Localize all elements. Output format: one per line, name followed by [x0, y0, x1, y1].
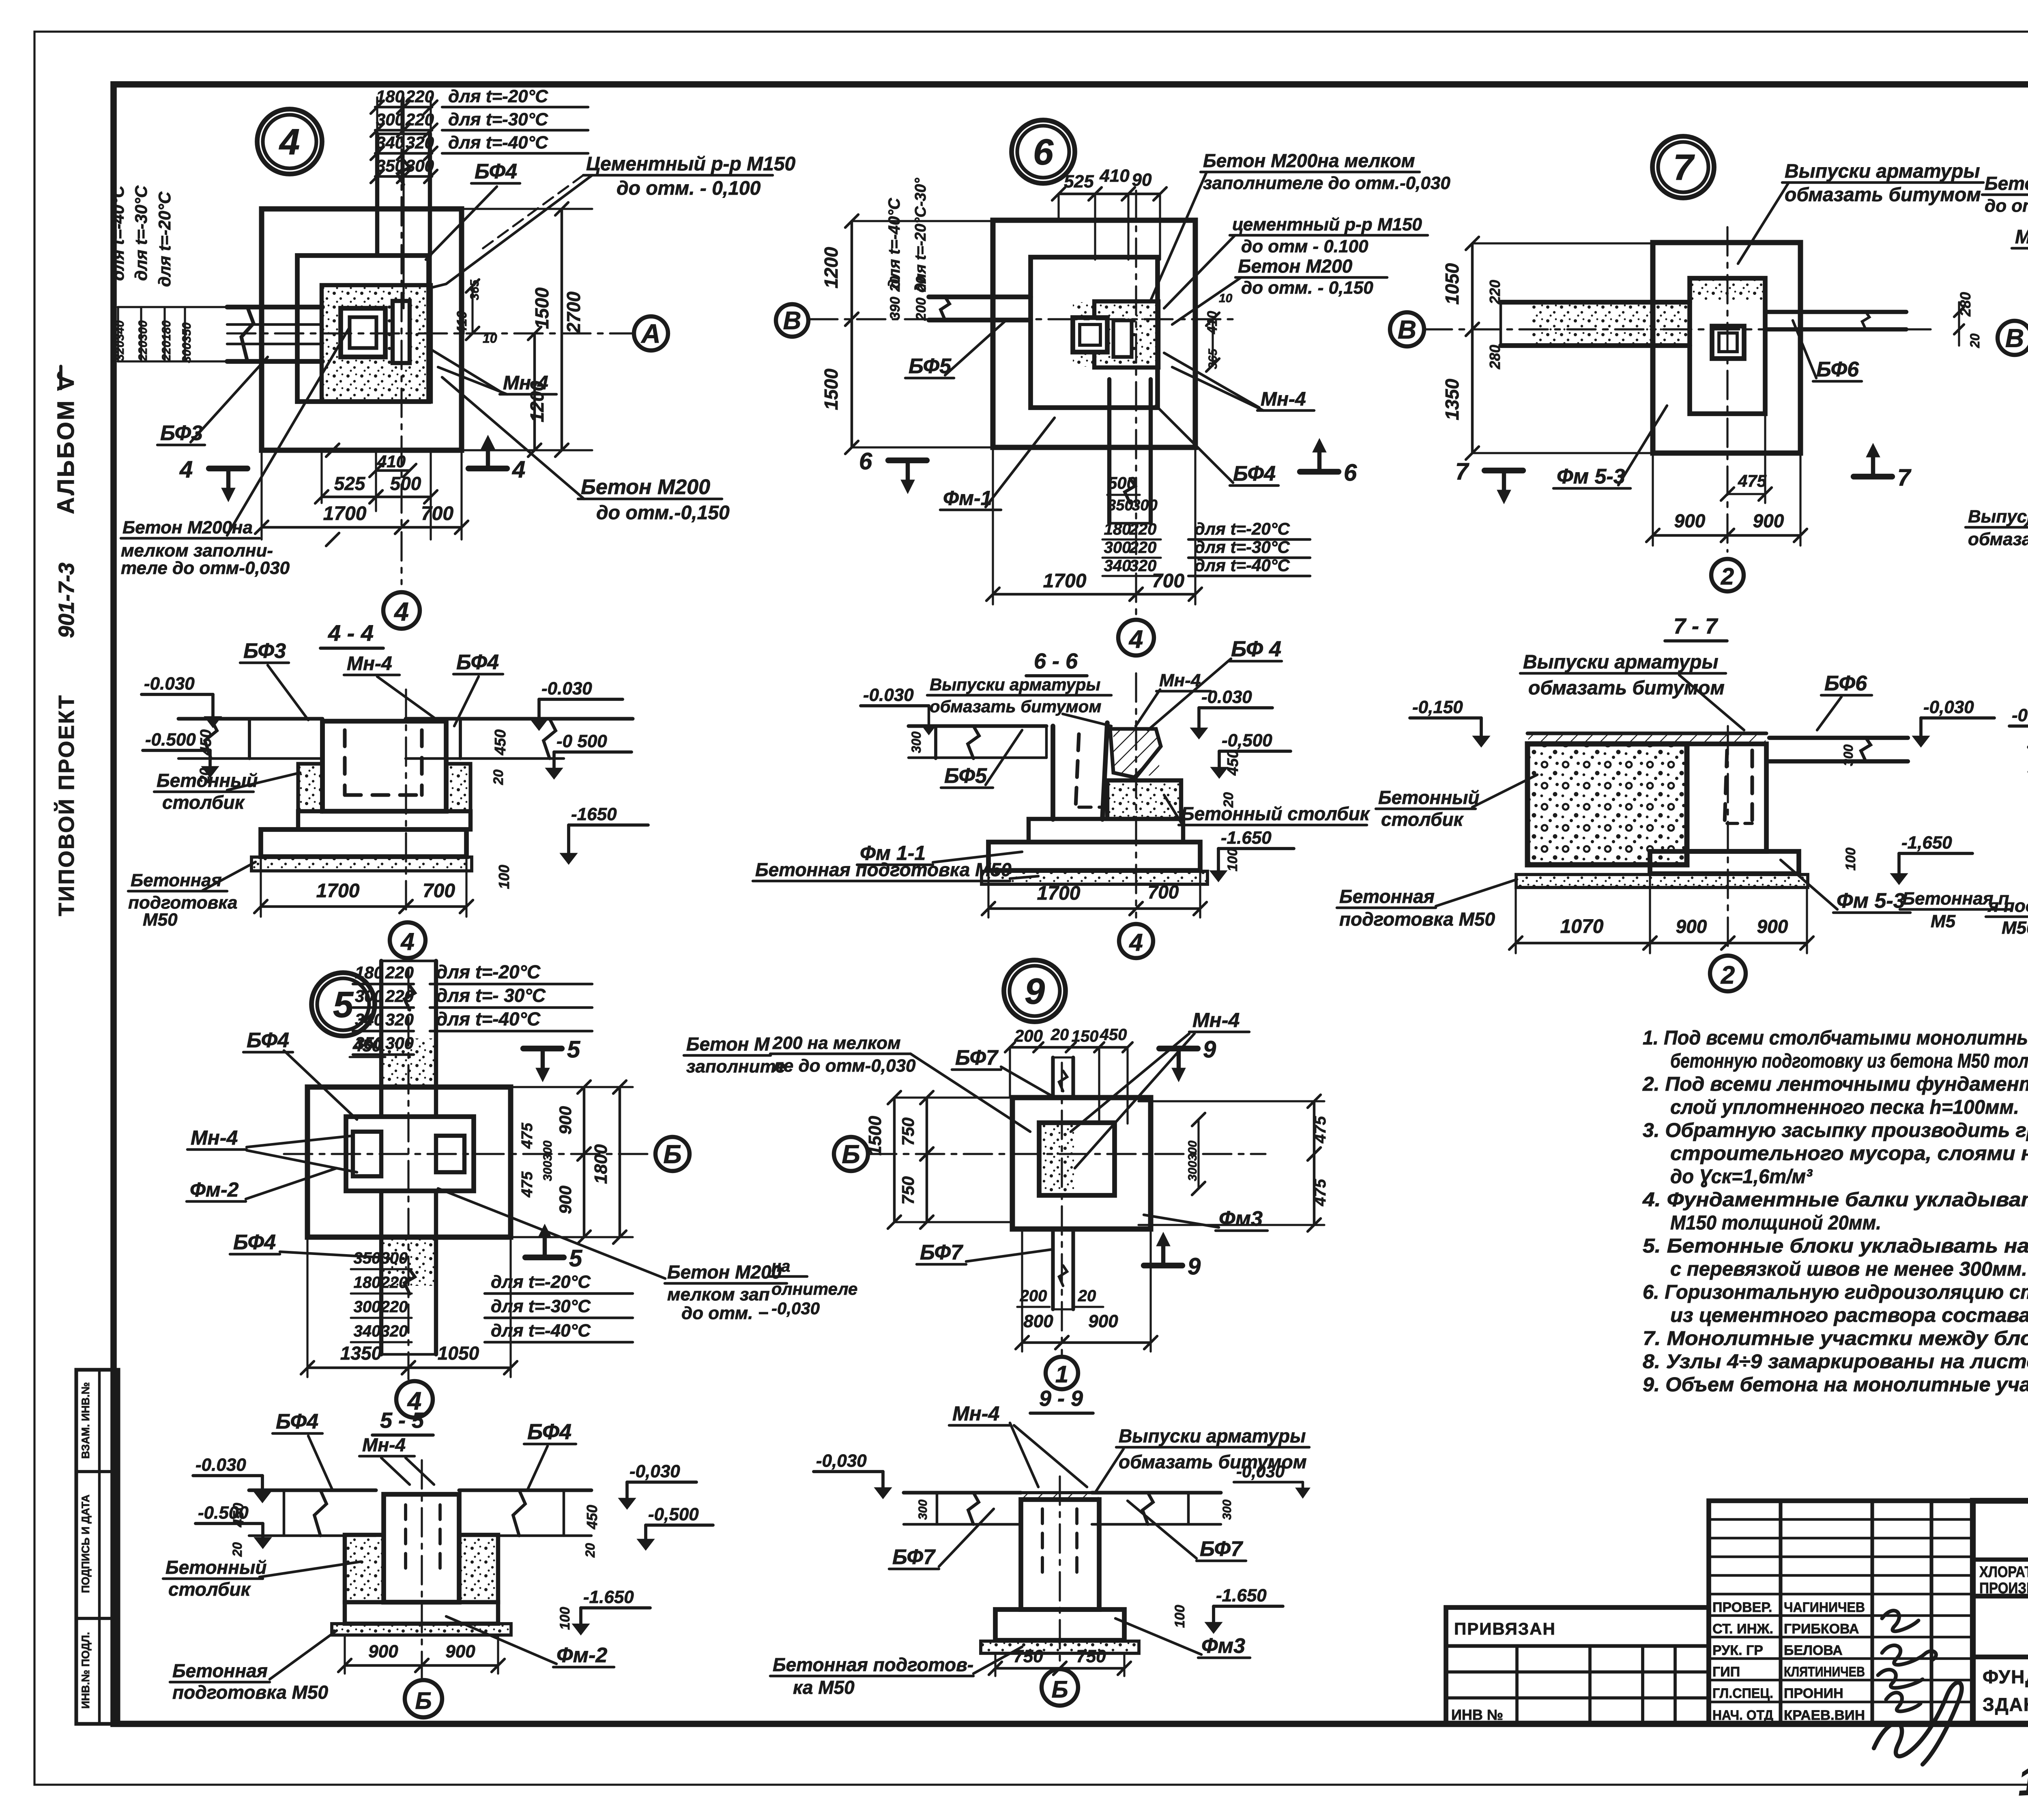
svg-text:для t=-30°С: для t=-30°С [1194, 537, 1290, 557]
svg-text:220: 220 [385, 986, 414, 1006]
svg-text:300: 300 [1132, 497, 1157, 514]
svg-text:200: 200 [1020, 1287, 1047, 1305]
svg-text:6 - 6: 6 - 6 [1034, 649, 1078, 673]
svg-text:300: 300 [909, 731, 924, 753]
svg-text:Выпуски арматуры: Выпуски арматуры [930, 675, 1100, 694]
svg-text:для t=-20°С: для t=-20°С [436, 961, 541, 982]
svg-text:1700: 1700 [1037, 883, 1081, 904]
svg-text:для t=-40°С: для t=-40°С [885, 198, 903, 289]
svg-text:-0,500: -0,500 [1222, 731, 1272, 750]
svg-text:525: 525 [334, 473, 366, 494]
svg-text:2. Под всеми ленточными фунд: 2. Под всеми ленточными фундаментами из … [1642, 1073, 2028, 1095]
svg-text:Цементный р-р М150: Цементный р-р М150 [586, 153, 796, 175]
svg-text:РУК. ГР: РУК. ГР [1712, 1643, 1763, 1658]
svg-text:1500: 1500 [865, 1116, 885, 1156]
svg-text:4: 4 [179, 456, 193, 483]
svg-text:300: 300 [355, 986, 383, 1006]
svg-text:ГИП: ГИП [1712, 1664, 1740, 1680]
svg-text:700: 700 [1152, 570, 1184, 592]
svg-text:обмазать битумом: обмазать битумом [930, 697, 1101, 716]
svg-text:365: 365 [468, 279, 481, 300]
svg-text:для t=-40°С: для t=-40°С [108, 185, 127, 281]
svg-text:Мн-4: Мн-4 [191, 1126, 238, 1149]
svg-text:9 - 9: 9 - 9 [1039, 1386, 1083, 1411]
svg-text:450: 450 [198, 729, 215, 755]
svg-text:-0.500: -0.500 [145, 730, 196, 750]
svg-text:320: 320 [381, 1322, 408, 1340]
svg-text:220: 220 [385, 963, 414, 982]
svg-text:БФ3: БФ3 [243, 639, 286, 663]
svg-text:Фм3: Фм3 [1219, 1207, 1263, 1231]
svg-text:220: 220 [1129, 539, 1157, 557]
svg-text:750: 750 [898, 1176, 917, 1205]
svg-text:НАЧ. ОТД: НАЧ. ОТД [1712, 1708, 1773, 1723]
svg-text:ЧАГИНИЧЕВ: ЧАГИНИЧЕВ [1784, 1600, 1865, 1615]
svg-text:-0,150: -0,150 [1412, 697, 1463, 717]
svg-text:В: В [2005, 323, 2024, 352]
svg-text:АЛЬБОМ Ѵ: АЛЬБОМ Ѵ [53, 370, 79, 514]
svg-text:БФ4: БФ4 [276, 1410, 318, 1433]
svg-text:Б: Б [1051, 1676, 1068, 1703]
svg-text:Мн-4: Мн-4 [362, 1434, 406, 1455]
svg-text:строительного мусора, слоями: строительного мусора, слоями не более 20… [1670, 1143, 2028, 1165]
svg-text:410: 410 [1099, 166, 1130, 186]
svg-text:20: 20 [491, 769, 506, 785]
svg-text:БФ4: БФ4 [233, 1231, 276, 1254]
svg-text:ПРОВЕР.: ПРОВЕР. [1712, 1600, 1772, 1615]
svg-text:-0.030: -0.030 [863, 685, 914, 705]
svg-text:1700: 1700 [316, 880, 360, 902]
svg-text:-0,030: -0,030 [1923, 697, 1974, 717]
svg-text:Выпуски арматуры: Выпуски арматуры [1785, 161, 1980, 182]
svg-text:-1.650: -1.650 [1221, 828, 1272, 848]
svg-text:2700: 2700 [563, 291, 584, 333]
svg-text:подготовка М50: подготовка М50 [172, 1682, 328, 1703]
svg-text:мелком зап: мелком зап [667, 1285, 770, 1304]
svg-text:ВЗАМ. ИНВ.№: ВЗАМ. ИНВ.№ [79, 1382, 92, 1459]
svg-text:1700: 1700 [1043, 570, 1087, 592]
svg-text:до Ɣск=1,6т/м³: до Ɣск=1,6т/м³ [1670, 1166, 1813, 1188]
svg-text:ПОДПИСЬ И ДАТА: ПОДПИСЬ И ДАТА [79, 1494, 92, 1593]
svg-text:525: 525 [1064, 172, 1094, 191]
svg-text:Фм3: Фм3 [1201, 1634, 1245, 1658]
svg-text:4: 4 [512, 456, 525, 483]
svg-text:365: 365 [1206, 348, 1220, 369]
svg-text:9: 9 [1188, 1253, 1201, 1280]
svg-text:БФ4: БФ4 [1233, 462, 1276, 486]
svg-text:Бетон М: Бетон М [686, 1034, 770, 1055]
svg-text:для t=-20°С-30°: для t=-20°С-30° [912, 178, 929, 292]
svg-text:900: 900 [1088, 1311, 1118, 1331]
svg-text:10: 10 [1219, 292, 1233, 305]
svg-text:КРАЕВ.ВИН: КРАЕВ.ВИН [1784, 1708, 1865, 1723]
svg-text:3. Обратную засыпку производ: 3. Обратную засыпку производить грунтом … [1643, 1120, 2028, 1141]
svg-text:9: 9 [1203, 1036, 1216, 1063]
svg-text:БФ4: БФ4 [527, 1420, 571, 1444]
svg-text:1: 1 [1055, 1361, 1068, 1388]
svg-text:БФ7: БФ7 [920, 1241, 963, 1264]
svg-text:ИНВ №: ИНВ № [1451, 1706, 1503, 1723]
svg-text:5: 5 [569, 1245, 582, 1272]
svg-text:750: 750 [1013, 1646, 1043, 1666]
svg-text:БФ4: БФ4 [247, 1029, 289, 1052]
svg-text:для t=-20°С: для t=-20°С [1194, 519, 1290, 538]
svg-text:6. Горизонтальную гидроизоляц: 6. Горизонтальную гидроизоляцию стен вып… [1643, 1281, 2028, 1303]
svg-text:20: 20 [230, 1542, 245, 1557]
svg-text:-0,030: -0,030 [629, 1461, 680, 1481]
svg-text:300: 300 [1104, 539, 1131, 557]
svg-text:700: 700 [1148, 881, 1179, 902]
svg-text:М5: М5 [1931, 911, 1956, 931]
svg-text:900: 900 [1676, 916, 1707, 937]
svg-text:я подготовка: я подготовка [1987, 896, 2028, 916]
svg-text:20: 20 [583, 1543, 597, 1558]
svg-text:для t=-20°С: для t=-20°С [491, 1272, 591, 1292]
svg-text:столбик: столбик [1381, 809, 1464, 830]
svg-text:6: 6 [859, 448, 872, 475]
svg-text:410: 410 [377, 452, 406, 471]
svg-text:800: 800 [1023, 1311, 1053, 1331]
svg-text:до отм. - 0,150: до отм. - 0,150 [1241, 278, 1373, 298]
svg-text:20: 20 [1968, 333, 1982, 348]
svg-text:100: 100 [1225, 849, 1240, 872]
svg-text:300300: 300300 [1186, 1141, 1199, 1181]
svg-text:теле до отм-0,030: теле до отм-0,030 [121, 558, 290, 578]
svg-text:ФУНДАМЕНТЫ КАРКАСА: ФУНДАМЕНТЫ КАРКАСА [1983, 1666, 2028, 1687]
svg-text:ка М50: ка М50 [793, 1677, 855, 1698]
svg-text:Бетон М200на мелком: Бетон М200на мелком [1203, 150, 1415, 171]
svg-text:340: 340 [355, 1010, 383, 1029]
svg-text:200 на мелком: 200 на мелком [772, 1033, 901, 1053]
svg-text:300: 300 [1841, 744, 1856, 766]
svg-text:390: 390 [887, 297, 903, 320]
svg-text:Б: Б [415, 1688, 432, 1714]
svg-text:А: А [640, 318, 661, 348]
svg-text:4. Фундаментные балки уклады: 4. Фундаментные балки укладывать на слой… [1642, 1189, 2028, 1211]
svg-text:Б: Б [842, 1139, 860, 1169]
svg-text:1500: 1500 [531, 287, 552, 329]
svg-text:900: 900 [445, 1642, 475, 1661]
svg-text:300350: 300350 [180, 322, 193, 363]
svg-text:ГРИБКОВА: ГРИБКОВА [1784, 1621, 1859, 1637]
svg-text:7: 7 [1673, 148, 1695, 188]
svg-text:220: 220 [380, 1298, 408, 1316]
svg-text:столбик: столбик [162, 792, 245, 813]
svg-text:100: 100 [496, 865, 512, 889]
svg-text:180: 180 [355, 963, 383, 982]
svg-text:столбик: столбик [168, 1579, 251, 1600]
svg-text:6: 6 [1033, 132, 1054, 173]
svg-text:1700: 1700 [323, 503, 367, 524]
svg-text:В: В [1398, 315, 1416, 344]
svg-text:900: 900 [1753, 510, 1784, 531]
svg-text:6: 6 [1344, 460, 1357, 486]
svg-text:20: 20 [1078, 1287, 1096, 1305]
svg-text:1050: 1050 [1442, 263, 1463, 305]
svg-text:для t=-20°С: для t=-20°С [155, 191, 174, 287]
svg-text:на: на [771, 1257, 790, 1275]
svg-text:слой уплотненного песка h=: слой уплотненного песка h=100мм. [1670, 1096, 2019, 1118]
svg-text:475: 475 [519, 1122, 536, 1149]
svg-text:БФ6: БФ6 [1824, 672, 1867, 695]
svg-text:200: 200 [913, 298, 929, 321]
svg-text:100: 100 [1843, 848, 1858, 871]
svg-text:320: 320 [385, 1010, 414, 1029]
svg-text:для t=-30°С: для t=-30°С [448, 110, 548, 129]
svg-text:-0,030: -0,030 [816, 1451, 867, 1471]
svg-text:БФ7: БФ7 [892, 1545, 936, 1569]
svg-text:901-7-3: 901-7-3 [54, 563, 79, 638]
svg-text:320340: 320340 [113, 320, 127, 361]
svg-text:для t=-30°С: для t=-30°С [131, 185, 150, 281]
svg-text:475: 475 [1311, 1116, 1329, 1143]
svg-text:Фм 5-3: Фм 5-3 [1557, 465, 1625, 488]
svg-text:1050: 1050 [438, 1343, 479, 1364]
svg-text:750: 750 [898, 1117, 917, 1146]
svg-text:7: 7 [1897, 464, 1912, 491]
svg-text:Фм-2: Фм-2 [190, 1178, 239, 1201]
svg-text:100: 100 [557, 1607, 573, 1630]
svg-text:ПРИВЯЗАН: ПРИВЯЗАН [1454, 1619, 1556, 1638]
svg-text:для t=-30°С: для t=-30°С [491, 1296, 591, 1316]
svg-text:цементный р-р М150: цементный р-р М150 [1232, 215, 1422, 234]
svg-text:ГЛ.СПЕЦ.: ГЛ.СПЕЦ. [1712, 1686, 1773, 1701]
svg-text:-0,030: -0,030 [771, 1299, 820, 1318]
svg-text:475: 475 [1311, 1179, 1329, 1206]
svg-text:до отм. −: до отм. − [681, 1303, 768, 1323]
svg-text:200: 200 [1014, 1026, 1043, 1045]
svg-text:олнителе: олнителе [771, 1279, 857, 1298]
svg-text:Мн-4: Мн-4 [347, 653, 392, 675]
svg-text:для t=-40°С: для t=-40°С [491, 1321, 591, 1341]
svg-text:М150 толщиной 20мм.: М150 толщиной 20мм. [1670, 1212, 1881, 1234]
svg-text:7: 7 [1455, 458, 1469, 485]
svg-text:450: 450 [1225, 750, 1242, 776]
svg-text:1350: 1350 [340, 1343, 382, 1364]
svg-text:9. Объем бетона на монолитн: 9. Объем бетона на монолитные участки - … [1643, 1374, 2028, 1396]
svg-text:900: 900 [556, 1186, 575, 1214]
svg-text:Бетонная подготовка М50: Бетонная подготовка М50 [755, 859, 1012, 880]
svg-text:Мн-4: Мн-4 [2015, 226, 2028, 248]
svg-text:900: 900 [1757, 916, 1788, 937]
svg-text:4: 4 [400, 928, 414, 955]
svg-text:с перевязкой швов не менее: с перевязкой швов не менее 300мм. [1670, 1258, 2027, 1280]
svg-text:-0.030: -0.030 [144, 674, 195, 694]
svg-text:Бетон М200: Бетон М200 [1238, 256, 1353, 277]
svg-text:280: 280 [1487, 345, 1503, 370]
svg-text:4: 4 [1129, 929, 1143, 956]
svg-text:Выпуски арматуры: Выпуски арматуры [1968, 507, 2028, 526]
svg-text:450: 450 [492, 729, 509, 755]
svg-text:320: 320 [1130, 557, 1157, 575]
svg-text:450: 450 [230, 1503, 247, 1528]
svg-text:БЕЛОВА: БЕЛОВА [1784, 1643, 1843, 1658]
svg-text:для t=-20°С: для t=-20°С [448, 86, 548, 106]
svg-text:500: 500 [1108, 473, 1136, 492]
svg-text:-0.030: -0.030 [541, 679, 592, 698]
svg-text:Выпуски арматуры: Выпуски арматуры [1119, 1425, 1306, 1446]
svg-text:-0.030: -0.030 [1201, 687, 1252, 707]
svg-text:1500: 1500 [821, 368, 842, 410]
svg-text:5. Бетонные блоки укладывать: 5. Бетонные блоки укладывать на цементно… [1643, 1235, 2028, 1257]
svg-text:5 - 5: 5 - 5 [380, 1408, 424, 1433]
svg-text:340: 340 [354, 1322, 381, 1340]
svg-text:мелком заполни-: мелком заполни- [121, 541, 273, 561]
svg-text:-1.650: -1.650 [1216, 1586, 1267, 1605]
svg-text:-1,650: -1,650 [1901, 833, 1952, 853]
svg-text:-0,500: -0,500 [648, 1504, 699, 1524]
svg-text:900: 900 [368, 1642, 398, 1661]
svg-text:БФ4: БФ4 [475, 160, 517, 183]
svg-text:300: 300 [385, 1034, 414, 1053]
svg-text:1070: 1070 [1560, 916, 1604, 937]
svg-text:заполнителе до отм.-0,030: заполнителе до отм.-0,030 [1203, 173, 1450, 193]
svg-text:475: 475 [519, 1171, 536, 1197]
svg-text:220180: 220180 [160, 320, 173, 361]
svg-text:Мн-4: Мн-4 [1159, 670, 1201, 690]
svg-text:900: 900 [1674, 510, 1706, 531]
svg-text:220: 220 [380, 1274, 408, 1291]
svg-text:-0030: -0030 [2012, 705, 2028, 725]
svg-text:СТ. ИНЖ.: СТ. ИНЖ. [1712, 1621, 1773, 1637]
svg-text:В: В [783, 307, 801, 335]
svg-text:для t=-40°С: для t=-40°С [436, 1008, 541, 1029]
svg-text:Бетон М200: Бетон М200 [1985, 173, 2028, 194]
svg-text:-0,030: -0,030 [1236, 1462, 1285, 1481]
svg-text:1200: 1200 [821, 247, 842, 288]
svg-text:БФ7: БФ7 [955, 1046, 999, 1070]
svg-text:4: 4 [279, 122, 300, 163]
svg-text:Бетонный: Бетонный [1378, 787, 1480, 808]
svg-text:до отм - 0.100: до отм - 0.100 [1241, 236, 1368, 256]
svg-text:1350: 1350 [1442, 378, 1463, 420]
svg-text:Фм-1: Фм-1 [943, 487, 992, 509]
svg-text:Мн-4: Мн-4 [952, 1402, 999, 1425]
svg-text:обмазать битумом: обмазать битумом [1785, 184, 1981, 206]
svg-text:1800: 1800 [591, 1144, 611, 1184]
svg-text:220: 220 [1487, 280, 1503, 305]
svg-text:300: 300 [354, 1298, 381, 1316]
svg-text:М50: М50 [143, 910, 178, 930]
svg-text:-0.030: -0.030 [195, 1455, 246, 1475]
svg-text:заполните: заполните [686, 1057, 786, 1077]
svg-text:700: 700 [423, 880, 455, 902]
svg-text:2: 2 [1721, 961, 1735, 989]
svg-text:450: 450 [352, 1036, 381, 1055]
svg-text:М50: М50 [2002, 918, 2028, 938]
svg-text:180: 180 [354, 1274, 381, 1291]
svg-text:БФ5: БФ5 [944, 764, 987, 788]
svg-text:ПРОНИН: ПРОНИН [1784, 1686, 1843, 1701]
svg-text:для t=-40°С: для t=-40°С [448, 133, 548, 153]
svg-text:БФ3: БФ3 [160, 421, 203, 445]
svg-text:300: 300 [381, 1249, 408, 1267]
svg-text:-1650: -1650 [571, 804, 617, 824]
svg-text:10: 10 [483, 331, 497, 346]
svg-text:2: 2 [1721, 563, 1734, 590]
svg-text:для t=- 30°С: для t=- 30°С [436, 985, 546, 1006]
svg-text:Бетонный столбик: Бетонный столбик [1181, 803, 1371, 824]
svg-text:Бетонная: Бетонная [1339, 886, 1435, 907]
svg-text:450: 450 [584, 1505, 600, 1530]
svg-text:до отм.-0,150: до отм.-0,150 [596, 502, 730, 524]
svg-text:700: 700 [421, 503, 453, 524]
svg-text:8. Узлы 4÷9 замаркированы: 8. Узлы 4÷9 замаркированы на листе КЖ-5. [1643, 1351, 2028, 1373]
svg-text:Выпуски арматуры: Выпуски арматуры [1523, 651, 1718, 673]
svg-text:ПРОИЗВОДИТЕЛЬНОСТЬЮ 12,5КГ ТОВ: ПРОИЗВОДИТЕЛЬНОСТЬЮ 12,5КГ ТОВАРНОГО ХЛО… [1979, 1580, 2028, 1597]
svg-text:для t=-40°С: для t=-40°С [1194, 556, 1290, 575]
svg-text:-0 500: -0 500 [556, 731, 607, 751]
svg-text:350: 350 [1107, 497, 1133, 514]
svg-text:Бетонная: Бетонная [172, 1660, 268, 1681]
svg-text:Фм 5-3: Фм 5-3 [1837, 889, 1905, 913]
svg-text:220: 220 [1129, 520, 1157, 538]
svg-text:350: 350 [354, 1249, 381, 1267]
svg-text:Мн-4: Мн-4 [1261, 389, 1306, 410]
svg-text:обмазать битумом: обмазать битумом [1968, 529, 2028, 549]
svg-text:ЗДАНИЯ УЗЛЫ 4÷9: ЗДАНИЯ УЗЛЫ 4÷9 [1983, 1694, 2028, 1715]
svg-text:БФ4: БФ4 [456, 651, 499, 674]
svg-text:300: 300 [916, 1500, 930, 1520]
svg-text:20: 20 [1051, 1026, 1069, 1044]
svg-text:475: 475 [1738, 471, 1767, 490]
svg-text:Бетонный: Бетонный [165, 1557, 267, 1578]
svg-text:до отм. - 0,100: до отм. - 0,100 [617, 178, 761, 199]
svg-text:ХЛОРАТОРНАЯ ДЛЯ ОБЕЗЗАРАЖИВАНИ: ХЛОРАТОРНАЯ ДЛЯ ОБЕЗЗАРАЖИВАНИЯ ПИТЬЕВЫХ… [1979, 1564, 2028, 1581]
svg-text:750: 750 [1076, 1646, 1106, 1666]
svg-text:5: 5 [333, 985, 354, 1025]
svg-text:4: 4 [1128, 625, 1143, 653]
svg-text:Мн-4: Мн-4 [1192, 1009, 1240, 1031]
svg-text:410: 410 [1205, 311, 1220, 335]
svg-text:410: 410 [454, 311, 470, 335]
svg-text:Мн-4: Мн-4 [503, 372, 548, 394]
svg-text:340: 340 [1104, 557, 1131, 575]
svg-text:900: 900 [556, 1106, 575, 1135]
svg-text:4 - 4: 4 - 4 [328, 620, 374, 646]
svg-text:подготовка М50: подготовка М50 [1339, 909, 1495, 930]
svg-text:ТИПОВОЙ ПРОЕКТ: ТИПОВОЙ ПРОЕКТ [54, 694, 79, 916]
svg-text:БФ7: БФ7 [1200, 1537, 1243, 1561]
svg-text:300: 300 [1220, 1500, 1234, 1520]
svg-text:9: 9 [1025, 971, 1045, 1012]
svg-text:ле до отм-0,030: ле до отм-0,030 [772, 1056, 916, 1076]
svg-text:7 - 7: 7 - 7 [1674, 614, 1719, 638]
svg-text:Б: Б [663, 1139, 681, 1169]
svg-text:КЛЯТИНИЧЕВ: КЛЯТИНИЧЕВ [1784, 1664, 1865, 1680]
svg-text:ИНВ.№ ПОДЛ.: ИНВ.№ ПОДЛ. [79, 1632, 92, 1708]
svg-text:из цементного раствора сост: из цементного раствора состава 1:2, толщ… [1670, 1304, 2028, 1326]
svg-text:1. Под всеми столбчатыми монол: 1. Под всеми столбчатыми монолитными фун… [1643, 1027, 2028, 1049]
svg-text:100: 100 [1172, 1605, 1188, 1628]
svg-text:5: 5 [567, 1036, 580, 1063]
svg-text:4: 4 [393, 597, 409, 626]
svg-text:бетонную подготовку из бето: бетонную подготовку из бетона М50 толщин… [1670, 1050, 2028, 1072]
svg-text:-1.650: -1.650 [583, 1587, 634, 1607]
svg-text:БФ 4: БФ 4 [1231, 637, 1281, 661]
svg-text:Бетонная подготов-: Бетонная подготов- [773, 1654, 973, 1675]
svg-text:7. Монолитные участки между: 7. Монолитные участки между блоками выпо… [1643, 1328, 2028, 1349]
svg-text:220300: 220300 [136, 320, 150, 361]
svg-text:300300: 300300 [541, 1141, 554, 1181]
svg-text:БФ6: БФ6 [1816, 358, 1859, 381]
svg-text:500: 500 [390, 473, 421, 494]
svg-text:до отм.-0150: до отм.-0150 [1985, 196, 2028, 216]
svg-text:Бетон М200: Бетон М200 [667, 1261, 782, 1283]
svg-text:Бетон М200: Бетон М200 [581, 475, 710, 499]
svg-text:Фм-2: Фм-2 [556, 1644, 607, 1667]
svg-text:450: 450 [1100, 1026, 1127, 1044]
